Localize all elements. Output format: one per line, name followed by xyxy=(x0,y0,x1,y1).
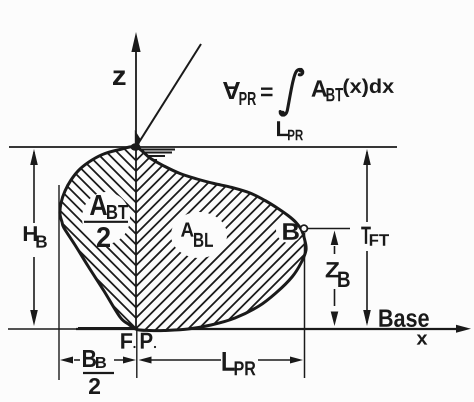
wire tick from point B xyxy=(308,228,350,230)
x-axis arrowhead xyxy=(456,325,471,333)
hatching right xyxy=(0,130,450,340)
dimension Z_B line xyxy=(334,246,336,306)
formula A of A_BT xyxy=(311,80,326,96)
label A_BL xyxy=(181,222,194,236)
label z xyxy=(113,71,125,85)
formula (x)dx xyxy=(343,79,394,97)
origin junction xyxy=(131,143,141,151)
wire base line (x-axis) xyxy=(8,328,78,330)
z axis arrowhead xyxy=(131,32,140,52)
formula equals sign xyxy=(261,89,273,95)
label H_B xyxy=(24,226,37,241)
z axis line xyxy=(135,36,137,329)
hatching left xyxy=(0,130,337,340)
free-surface hatch marks xyxy=(135,150,175,161)
dimension H_B line xyxy=(33,152,35,322)
label B_B/2 fraction xyxy=(83,350,96,367)
integral sign xyxy=(280,69,303,115)
label P xyxy=(141,333,153,349)
formula PR subscript xyxy=(239,92,256,105)
label A_BT/2 fraction xyxy=(90,195,107,215)
label B point xyxy=(283,223,299,239)
formula forall symbol xyxy=(223,82,240,99)
blade section outline xyxy=(60,147,306,331)
z axis segment inside blob xyxy=(135,147,137,329)
node B marker xyxy=(301,225,308,232)
dimension B_B/2 line xyxy=(74,359,124,361)
extension line for B_B/2 xyxy=(58,185,60,380)
formula BT subscript xyxy=(326,88,343,101)
label Base xyxy=(379,309,428,327)
label F xyxy=(121,333,132,348)
label Z_B xyxy=(326,262,340,277)
label x axis xyxy=(417,335,428,345)
wire top reference line xyxy=(9,146,397,148)
diagonal line from origin xyxy=(136,44,201,147)
blade section blob fill xyxy=(60,147,306,331)
label T_FT xyxy=(361,227,371,244)
dimension T_FT line xyxy=(366,152,368,323)
formula L_PR below integral xyxy=(277,121,288,136)
dimension L_PR line xyxy=(151,359,291,361)
label clearing holes xyxy=(82,192,130,244)
label L_PR dimension xyxy=(222,352,234,371)
extension line below B xyxy=(304,233,306,378)
